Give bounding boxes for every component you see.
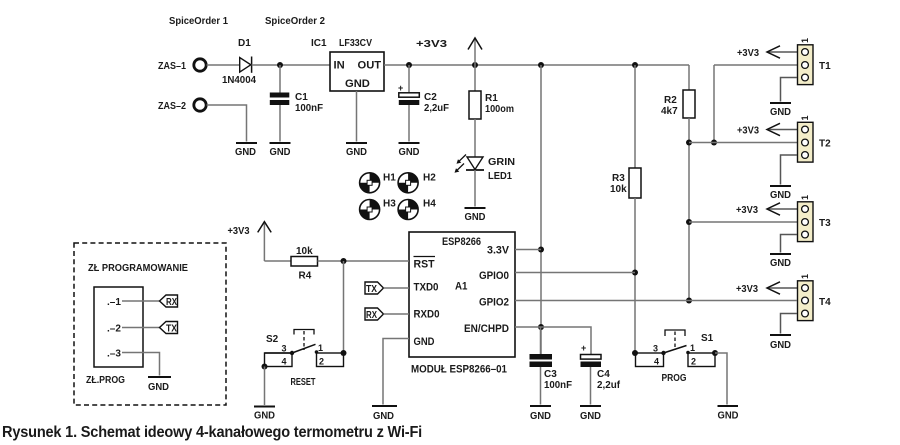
svg-text:.–2: .–2 — [107, 324, 121, 335]
svg-text:3.3V: 3.3V — [487, 245, 510, 257]
svg-text:T2: T2 — [819, 139, 831, 150]
wire T1 data row — [714, 64, 797, 66]
svg-text:3: 3 — [282, 344, 287, 354]
wire R3 to GPIO0 node and S1 — [634, 198, 636, 353]
resistor R4 10k — [291, 246, 318, 282]
svg-text:GRIN: GRIN — [488, 157, 515, 168]
capacitor C1 100nF — [270, 92, 323, 114]
svg-text:GND: GND — [346, 147, 367, 158]
svg-text:1: 1 — [800, 38, 810, 43]
wire S2 to ground — [264, 367, 266, 406]
wire rail to R2 — [688, 65, 690, 90]
connector T3 — [736, 195, 831, 269]
svg-text:C4: C4 — [597, 369, 610, 380]
wire D1 cathode to node VIN — [252, 64, 330, 66]
wire C2 to rail — [408, 65, 410, 93]
svg-text:IN: IN — [334, 60, 345, 72]
wire RST node to S2 pin1 — [343, 261, 345, 353]
svg-text:ZŁ.PROG: ZŁ.PROG — [86, 375, 125, 386]
capacitor C4 2,2uf (polarized) — [580, 343, 621, 422]
ground GND (ESP) — [372, 406, 397, 422]
capacitor C3 100nF — [530, 327, 573, 422]
programming header dashed box — [74, 243, 226, 405]
svg-text:EN/CHPD: EN/CHPD — [464, 323, 509, 335]
svg-text:100om: 100om — [485, 104, 514, 115]
svg-text:R2: R2 — [664, 95, 677, 106]
svg-text:1: 1 — [800, 274, 810, 279]
tag TX (header) — [160, 322, 178, 335]
power +3V3 arrow (top) — [416, 38, 482, 65]
svg-text:GND: GND — [373, 411, 394, 422]
svg-text:D1: D1 — [238, 38, 251, 49]
wire ZL.PROG pin3 to ground — [122, 353, 160, 376]
node S1-R3 junction — [632, 350, 638, 356]
svg-text:+3V3: +3V3 — [736, 205, 758, 216]
node T2 data junction — [686, 140, 692, 146]
svg-text:GND: GND — [270, 147, 291, 158]
ground GND (C1) — [270, 143, 291, 158]
wire ESP 3.3V stub — [515, 249, 541, 251]
svg-text:IC1: IC1 — [311, 38, 327, 49]
svg-text:PROG: PROG — [662, 373, 687, 384]
resistor R3 10k — [610, 168, 641, 198]
svg-text:T1: T1 — [819, 61, 831, 72]
regulator IC1 LF33CV — [311, 38, 384, 91]
svg-text:2: 2 — [691, 357, 696, 367]
tag RX — [365, 308, 384, 321]
diode D1 1N4004 — [222, 38, 256, 86]
svg-text:ESP8266: ESP8266 — [442, 236, 481, 248]
svg-text:100nF: 100nF — [544, 380, 572, 391]
svg-text:10k: 10k — [296, 246, 313, 257]
svg-text:GND: GND — [148, 382, 169, 393]
svg-text:RX: RX — [366, 309, 377, 321]
svg-text:1: 1 — [800, 115, 810, 120]
svg-text:GND: GND — [770, 340, 791, 351]
svg-text:GND: GND — [345, 78, 370, 90]
svg-text:1: 1 — [690, 343, 695, 353]
svg-text:+3V3: +3V3 — [416, 39, 448, 50]
svg-text:.–3: .–3 — [107, 349, 121, 360]
svg-text:LF33CV: LF33CV — [339, 38, 372, 49]
header ZL.PROG body — [94, 287, 143, 367]
svg-text:GND: GND — [580, 411, 601, 422]
connector ZAS-1 — [158, 59, 206, 72]
svg-text:R3: R3 — [612, 173, 625, 184]
svg-text:S1: S1 — [701, 333, 714, 344]
svg-text:2,2uf: 2,2uf — [597, 380, 621, 391]
wire ESP EN/CHPD to C4 — [515, 327, 591, 354]
svg-text:GND: GND — [530, 411, 551, 422]
svg-text:TXD0: TXD0 — [414, 282, 439, 294]
tag RX (header) — [160, 295, 178, 308]
svg-text:R4: R4 — [299, 271, 312, 282]
ground GND (ZAS-2) — [235, 143, 257, 158]
svg-text:SpiceOrder 1: SpiceOrder 1 — [169, 16, 228, 27]
ground GND (ZL.PROG) — [148, 377, 171, 393]
power +3V3 arrow (R4) — [228, 222, 272, 261]
svg-text:GND: GND — [465, 212, 486, 223]
svg-text:GPIO0: GPIO0 — [479, 270, 509, 282]
svg-text:H2: H2 — [423, 173, 436, 184]
svg-text:RXD0: RXD0 — [414, 309, 440, 321]
svg-text:+3V3: +3V3 — [228, 226, 250, 237]
wire TX tag to ESP TXD0 — [384, 287, 410, 289]
svg-text:GND: GND — [399, 147, 420, 158]
wire T3 data row — [689, 221, 797, 223]
svg-text:GND: GND — [235, 147, 256, 158]
fiducial H4 — [398, 199, 436, 220]
wire RX tag to ESP RXD0 — [384, 313, 410, 315]
wire rail to ESP 3.3V / EN/CHPD / C3 (vertical x=541) — [540, 65, 542, 354]
wire ESP GPIO2 to T4 — [515, 300, 797, 302]
wire ZAS-2 to ground — [207, 105, 247, 142]
wire IC1 GND pin to ground — [356, 91, 358, 142]
svg-text:GND: GND — [770, 190, 791, 201]
switch S2 RESET — [265, 330, 344, 389]
wire +3V3 rail (IC1 OUT to R2) — [384, 64, 689, 66]
node rail-C2 junction — [406, 62, 412, 68]
module U1 ESP8266 — [409, 232, 515, 376]
svg-text:R1: R1 — [485, 93, 498, 104]
connector T2 — [737, 115, 831, 201]
svg-text:A1: A1 — [455, 281, 468, 293]
node 3.3V junction — [538, 247, 544, 253]
svg-text:+: + — [398, 83, 403, 93]
svg-text:GND: GND — [770, 258, 791, 269]
svg-text:TX: TX — [166, 323, 177, 335]
svg-text:H1: H1 — [383, 173, 396, 184]
svg-text:C3: C3 — [544, 369, 557, 380]
svg-text:RESET: RESET — [291, 377, 316, 388]
ground GND (S1) — [718, 406, 739, 422]
svg-text:1: 1 — [318, 343, 323, 353]
svg-text:+3V3: +3V3 — [736, 284, 758, 295]
switch S1 PROG — [636, 330, 716, 384]
wire +3V3 to R4 — [264, 260, 291, 262]
wire T1 data drop (x=714) — [713, 65, 715, 143]
svg-text:T3: T3 — [819, 218, 831, 229]
svg-text:GPIO2: GPIO2 — [479, 297, 509, 309]
svg-text:OUT: OUT — [358, 60, 382, 72]
connector ZAS-2 — [158, 99, 206, 112]
svg-text:LED1: LED1 — [488, 171, 512, 182]
node S2 ground corner — [262, 364, 268, 370]
svg-text:GND: GND — [414, 336, 435, 348]
connector T1 — [737, 38, 831, 118]
svg-text:100nF: 100nF — [295, 103, 323, 114]
node S2-RST junction — [341, 350, 347, 356]
svg-text:ZAS–1: ZAS–1 — [158, 61, 186, 72]
svg-text:C2: C2 — [424, 92, 437, 103]
tag TX — [365, 282, 384, 295]
svg-text:GND: GND — [254, 411, 275, 422]
node rail-ESP junction — [538, 62, 544, 68]
svg-text:4k7: 4k7 — [661, 106, 678, 117]
LED LED1 GRIN — [455, 155, 516, 183]
ground GND (C2) — [399, 143, 420, 158]
node GPIO0 junction — [632, 270, 638, 276]
wire LED1 to ground — [474, 170, 476, 207]
svg-text:SpiceOrder 2: SpiceOrder 2 — [265, 16, 325, 27]
wire rail to R3 — [634, 65, 636, 168]
svg-text:+3V3: +3V3 — [737, 48, 759, 59]
wire S1 to ground — [715, 353, 727, 405]
connector T4 — [736, 274, 831, 351]
wire C1 to ground — [279, 105, 281, 142]
wire C2 to ground — [408, 105, 410, 142]
resistor R1 100om — [469, 91, 514, 119]
node rail-R3 junction — [632, 62, 638, 68]
node rail-R1 junction — [472, 62, 478, 68]
ground GND (S2) — [254, 407, 275, 422]
wire ZAS-1 to D1 anode — [207, 64, 240, 66]
svg-text:S2: S2 — [266, 334, 279, 345]
resistor R2 4k7 — [661, 90, 695, 118]
svg-text:GND: GND — [770, 107, 791, 118]
svg-text:MODUŁ ESP8266–01: MODUŁ ESP8266–01 — [411, 364, 507, 376]
svg-text:1N4004: 1N4004 — [222, 75, 256, 86]
wire ZL.PROG pin1 to RX tag — [122, 300, 160, 302]
wire R4 to RST node — [318, 260, 410, 262]
fiducial H2 — [398, 173, 436, 193]
svg-text:2: 2 — [319, 357, 324, 367]
svg-text:ZAS–2: ZAS–2 — [158, 101, 186, 112]
svg-text:H4: H4 — [423, 199, 436, 210]
wire ZL.PROG pin2 to TX tag — [122, 327, 160, 329]
node RST junction — [341, 258, 347, 264]
wire T2 data row — [689, 142, 797, 144]
node S1 pin1 junction — [712, 350, 718, 356]
wire R1 to LED1 — [474, 119, 476, 157]
node VIN junction — [277, 62, 283, 68]
wire R2 to GPIO2 net (vertical x=689) — [688, 118, 690, 301]
fiducial H3 — [360, 199, 397, 220]
svg-text:4: 4 — [654, 357, 659, 367]
wire ESP GND to ground — [383, 339, 409, 405]
svg-text:Rysunek 1. Schemat ideowy 4-ka: Rysunek 1. Schemat ideowy 4-kanałowego t… — [2, 424, 422, 441]
fiducial H1 — [360, 173, 397, 193]
node T1-T2 junction — [711, 140, 717, 146]
svg-text:GND: GND — [718, 411, 739, 422]
svg-text:C1: C1 — [295, 92, 308, 103]
svg-text:+: + — [581, 343, 586, 353]
node T3 data junction — [686, 219, 692, 225]
svg-text:10k: 10k — [610, 184, 627, 195]
svg-text:RX: RX — [166, 296, 177, 308]
svg-text:+3V3: +3V3 — [737, 126, 759, 137]
svg-text:4: 4 — [282, 357, 287, 367]
capacitor C2 2,2uF (polarized) — [398, 83, 449, 114]
wire ESP GPIO0 to R3 — [515, 272, 635, 274]
wire rail to R1 — [474, 65, 476, 91]
ground GND (IC1) — [346, 143, 367, 158]
svg-text:ZŁ PROGRAMOWANIE: ZŁ PROGRAMOWANIE — [88, 263, 188, 274]
svg-text:RST: RST — [414, 259, 435, 271]
svg-text:T4: T4 — [819, 297, 831, 308]
svg-text:.–1: .–1 — [107, 297, 121, 308]
svg-text:TX: TX — [366, 283, 377, 295]
node GPIO2-T4 junction — [686, 298, 692, 304]
svg-text:3: 3 — [653, 344, 658, 354]
svg-text:1: 1 — [800, 195, 810, 200]
node EN/CHPD junction — [538, 324, 544, 330]
svg-text:2,2uF: 2,2uF — [424, 103, 449, 114]
wire C1 to node VIN — [279, 65, 281, 93]
ground GND (LED1) — [465, 208, 486, 223]
svg-text:H3: H3 — [383, 199, 396, 210]
